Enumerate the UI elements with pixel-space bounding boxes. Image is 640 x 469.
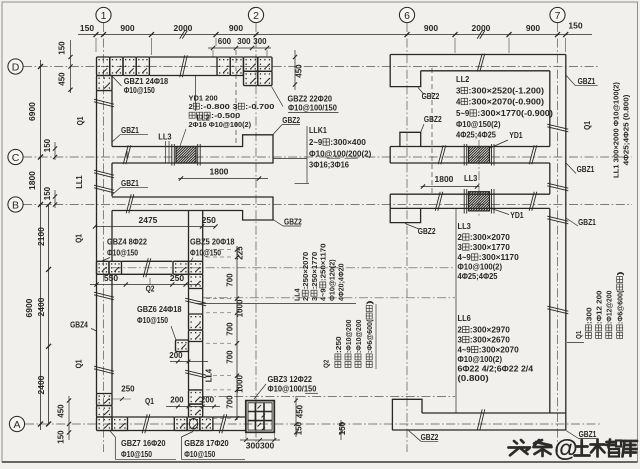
svg-text:2: 2 <box>189 102 193 111</box>
svg-text:2400: 2400 <box>36 297 46 316</box>
svg-text:1800: 1800 <box>27 171 37 190</box>
axis line Q2 wall <box>112 267 455 269</box>
svg-text:GBZ3 12Φ22: GBZ3 12Φ22 <box>268 375 313 384</box>
svg-text:LL6: LL6 <box>458 314 472 323</box>
svg-text:(0.800): (0.800) <box>458 374 489 383</box>
svg-text:Q1: Q1 <box>75 359 84 368</box>
svg-text:Φ10@150: Φ10@150 <box>190 249 222 258</box>
svg-text::Φ10@200: :Φ10@200 <box>354 320 363 353</box>
svg-text:150: 150 <box>58 41 67 55</box>
centerline mid strip <box>203 297 455 299</box>
dim 450/150 right of GBZ3 <box>295 396 297 437</box>
svg-text:2000: 2000 <box>174 23 193 33</box>
svg-text:2~9: 2~9 <box>309 138 323 147</box>
svg-text:GBZ1: GBZ1 <box>579 430 597 439</box>
svg-text:200: 200 <box>170 396 184 405</box>
svg-text:4~9: 4~9 <box>458 346 472 355</box>
svg-text:2000: 2000 <box>472 23 491 33</box>
svg-text:LL2: LL2 <box>456 75 470 84</box>
svg-text:3: 3 <box>310 297 319 301</box>
axis line 6 <box>406 23 408 452</box>
left dim chain inner B-A <box>48 205 50 425</box>
Q2 note block rotated <box>322 360 331 368</box>
svg-text:Φ10@150: Φ10@150 <box>137 316 169 325</box>
svg-text::300×2070: :300×2070 <box>470 233 511 242</box>
svg-text::Φ12@200: :Φ12@200 <box>605 291 614 324</box>
svg-text:GBZ8 17Φ20: GBZ8 17Φ20 <box>184 439 229 448</box>
svg-text:GBZ1: GBZ1 <box>578 218 596 227</box>
svg-text:2: 2 <box>458 326 463 335</box>
svg-text::-0.700: :-0.700 <box>245 102 274 111</box>
axis bubble C <box>8 149 23 164</box>
top dimension chain <box>78 34 592 36</box>
svg-text:GBZ5 20Φ18: GBZ5 20Φ18 <box>190 238 235 247</box>
svg-text:YD1: YD1 <box>510 211 524 220</box>
svg-text:Φ10@150: Φ10@150 <box>121 450 153 459</box>
svg-text::300×2070(-0.900): :300×2070(-0.900) <box>468 98 544 107</box>
LL4 note block rotated <box>292 288 301 301</box>
YD1 hatch B right <box>469 192 490 211</box>
svg-text::-0.800 3: :-0.800 3 <box>200 102 238 111</box>
wall D left: GBZ2 column <box>217 57 230 76</box>
svg-text::300×2520(-1.200): :300×2520(-1.200) <box>468 87 544 96</box>
svg-text:LLK1: LLK1 <box>309 126 327 135</box>
left dim chain outer <box>40 60 42 430</box>
label Q1 left top <box>76 116 85 125</box>
svg-text::Φ6@600(: :Φ6@600( <box>616 290 625 324</box>
svg-text:Φ10@100/150: Φ10@100/150 <box>288 104 337 113</box>
svg-text:700: 700 <box>226 322 235 336</box>
svg-text:4~9: 4~9 <box>319 289 328 302</box>
center strip Q2 vertical <box>188 211 190 262</box>
axis bubble B <box>8 197 23 212</box>
svg-text::300×2670: :300×2670 <box>470 336 511 345</box>
GBZ4 cells <box>97 261 110 274</box>
left wall break marks <box>94 99 114 104</box>
wall D right left pier <box>390 55 421 87</box>
A wall right bldg <box>422 412 566 414</box>
svg-text:Φ10@150: Φ10@150 <box>124 86 156 95</box>
GBZ6 cells <box>189 314 203 330</box>
svg-text:LL2: LL2 <box>197 114 211 123</box>
svg-text:Q1: Q1 <box>574 331 583 339</box>
svg-text:Φ10@150(2): Φ10@150(2) <box>456 120 501 129</box>
axis bubble 1 <box>96 7 111 22</box>
svg-text:900: 900 <box>229 23 243 33</box>
wall C left outline <box>112 135 273 163</box>
Q2 wall left <box>122 260 173 262</box>
svg-text:LL3: LL3 <box>158 133 172 142</box>
svg-text:450: 450 <box>295 64 304 78</box>
label Q1 right top <box>583 121 592 130</box>
label LL2 left <box>195 76 197 111</box>
wall B left outline <box>112 197 273 220</box>
svg-text:150: 150 <box>43 186 52 200</box>
wall B right band <box>390 193 550 195</box>
right wall inner segments <box>549 71 551 147</box>
B wall break <box>126 194 131 213</box>
svg-text:150: 150 <box>80 23 94 33</box>
svg-text::Φ10@200: :Φ10@200 <box>344 320 353 353</box>
svg-text:2: 2 <box>253 10 259 22</box>
A wall left bldg <box>128 416 175 418</box>
dim 200 200 at strip bottom <box>166 406 220 408</box>
svg-text:225: 225 <box>236 246 245 260</box>
svg-text:Q1: Q1 <box>583 121 592 130</box>
svg-text:C: C <box>12 152 20 164</box>
svg-text:900: 900 <box>526 23 540 33</box>
svg-text:LL3: LL3 <box>464 174 478 183</box>
svg-text:GBZ2: GBZ2 <box>422 92 440 101</box>
svg-text:Φ10@100/200(2): Φ10@100/200(2) <box>309 150 372 159</box>
svg-text::300×1770(-0.900): :300×1770(-0.900) <box>477 109 553 118</box>
svg-text:GBZ2: GBZ2 <box>284 218 302 227</box>
svg-text:LL4: LL4 <box>292 288 301 301</box>
svg-text:GBZ4: GBZ4 <box>70 321 88 330</box>
svg-text:2475: 2475 <box>139 215 158 225</box>
top sub-dimension 600 300 300 <box>208 47 271 49</box>
hidden line sub-dim <box>235 50 237 145</box>
svg-text:6900: 6900 <box>24 298 34 317</box>
top dim break marks <box>180 31 185 39</box>
left small 150 dims <box>54 142 56 160</box>
svg-text:4~9: 4~9 <box>458 253 472 262</box>
watermark 头条@土木智库 <box>509 440 552 456</box>
svg-text:Q1: Q1 <box>145 397 154 406</box>
wall D right band <box>390 54 566 56</box>
axis bubble 6 <box>399 7 414 22</box>
svg-text:200: 200 <box>169 351 183 360</box>
svg-text:150: 150 <box>57 430 66 444</box>
axis line A <box>25 423 600 425</box>
dim 450 right of GBZ2 <box>294 50 296 90</box>
extension lines top <box>95 38 97 52</box>
svg-text:GBZ2: GBZ2 <box>421 433 439 442</box>
svg-text:4Φ25;4Φ25: 4Φ25;4Φ25 <box>456 131 497 140</box>
axis line D <box>23 66 598 68</box>
LL1 vertical note <box>612 82 621 178</box>
label LL4 rotated <box>205 368 214 382</box>
svg-text:B: B <box>12 199 19 211</box>
hidden line right bldg <box>431 68 433 194</box>
axis bubble D <box>8 59 23 74</box>
bottom frame line <box>2 461 638 463</box>
svg-text:Φ10@100(2): Φ10@100(2) <box>458 355 503 364</box>
strip lower cells <box>189 390 203 404</box>
svg-text:Φ10@150: Φ10@150 <box>184 450 216 459</box>
svg-text:700: 700 <box>226 350 235 364</box>
label Q1 left low <box>75 359 84 368</box>
left bottom 450/150 dim <box>68 396 70 440</box>
dim 550 / 250 <box>90 284 200 286</box>
svg-text:1: 1 <box>101 10 107 22</box>
svg-text:Q2: Q2 <box>146 285 155 294</box>
C right step <box>400 132 421 146</box>
svg-text:5~9: 5~9 <box>456 109 470 118</box>
YD1 hatch C right <box>469 147 490 164</box>
left top 150/450 dim <box>70 40 72 93</box>
svg-text:450: 450 <box>58 72 67 86</box>
svg-text:LL1: LL1 <box>75 175 84 189</box>
svg-text:D: D <box>12 61 20 73</box>
YD1 hatch at C left <box>176 147 196 164</box>
svg-text:150: 150 <box>568 21 582 31</box>
svg-text::-0.500: :-0.500 <box>211 111 240 120</box>
svg-text:LL4: LL4 <box>205 368 214 382</box>
svg-text::250: :250 <box>334 336 343 353</box>
svg-text:2400: 2400 <box>36 375 46 394</box>
svg-text:300: 300 <box>237 37 251 46</box>
axis line B <box>23 204 632 206</box>
svg-text:Φ10@100(2): Φ10@100(2) <box>458 263 503 272</box>
svg-text::250×1170: :250×1170 <box>319 244 328 282</box>
svg-text:600: 600 <box>218 37 232 46</box>
dim 1800 at C left <box>178 178 268 180</box>
svg-text:300: 300 <box>253 37 267 46</box>
right wall break marks <box>547 124 568 129</box>
svg-text:Q2: Q2 <box>322 360 331 368</box>
svg-text:GBZ1: GBZ1 <box>121 179 139 188</box>
svg-text:250: 250 <box>170 273 184 283</box>
svg-text:@: @ <box>554 436 578 463</box>
svg-text:YD1: YD1 <box>509 131 523 140</box>
svg-text:LL1 300×2000 Φ10@100(2): LL1 300×2000 Φ10@100(2) <box>612 82 621 178</box>
svg-text:GBZ2 22Φ20: GBZ2 22Φ20 <box>288 95 333 104</box>
svg-text::Φ12 200: :Φ12 200 <box>595 291 604 324</box>
svg-text:3: 3 <box>458 336 463 345</box>
dim 2475 / 250 below B <box>95 226 216 228</box>
svg-text:2: 2 <box>458 233 463 242</box>
svg-text:GBZ2: GBZ2 <box>424 115 442 124</box>
svg-text:GBZ1: GBZ1 <box>578 77 596 86</box>
svg-text:Q1: Q1 <box>75 234 84 243</box>
B right step <box>390 208 420 222</box>
dim 300300 under GBZ3 <box>240 439 280 441</box>
strip break marks <box>185 298 206 303</box>
svg-text:6: 6 <box>404 10 410 22</box>
dim 150 x341 <box>340 420 342 440</box>
svg-text:1000: 1000 <box>236 299 245 317</box>
svg-text:GBZ7 16Φ20: GBZ7 16Φ20 <box>121 439 166 448</box>
svg-text::300×1170: :300×1170 <box>479 253 520 262</box>
svg-text:150: 150 <box>43 138 52 152</box>
svg-text::300×1770: :300×1770 <box>470 243 511 252</box>
svg-text::300×2970: :300×2970 <box>470 326 511 335</box>
svg-text:Φ10@120(2): Φ10@120(2) <box>328 259 337 301</box>
svg-text:250: 250 <box>202 215 216 225</box>
svg-text::300: :300 <box>584 307 593 324</box>
axis line 1 <box>103 23 105 452</box>
svg-text:GBZ2: GBZ2 <box>418 227 436 236</box>
svg-text:6900: 6900 <box>27 102 37 121</box>
svg-text:700: 700 <box>226 395 235 409</box>
svg-text:4Φ20;4Φ20: 4Φ20;4Φ20 <box>336 264 345 302</box>
Q1 note block rotated right <box>574 331 583 339</box>
svg-text:Φ10@100/150: Φ10@100/150 <box>268 385 317 394</box>
svg-text:Φ10@150: Φ10@150 <box>107 249 139 258</box>
svg-text:2: 2 <box>301 297 310 301</box>
centerline lower strip <box>203 396 455 398</box>
axis bubble 7 <box>550 7 565 22</box>
svg-text:Q1: Q1 <box>76 116 85 125</box>
svg-text:3: 3 <box>458 243 463 252</box>
svg-text:GBZ6 24Φ18: GBZ6 24Φ18 <box>137 305 182 314</box>
svg-text::300×400: :300×400 <box>330 138 366 147</box>
svg-text:200: 200 <box>201 396 215 405</box>
svg-text:GBZ1: GBZ1 <box>121 126 139 135</box>
axis bubble 2 <box>248 7 263 22</box>
svg-text:6Φ22 4/2;6Φ22 2/4: 6Φ22 4/2;6Φ22 2/4 <box>458 365 534 374</box>
svg-text:150: 150 <box>338 421 347 435</box>
svg-text:2100: 2100 <box>36 227 46 246</box>
svg-text:4Φ25;4Φ25 (0.800): 4Φ25;4Φ25 (0.800) <box>622 94 631 165</box>
dim 200 mid strip <box>170 361 208 363</box>
svg-text:900: 900 <box>120 23 134 33</box>
svg-text:250: 250 <box>121 385 135 394</box>
right wall outer <box>565 55 567 431</box>
label Q1 left mid <box>75 234 84 243</box>
GBZ7 cells <box>97 394 113 406</box>
axis line 2 <box>255 23 257 443</box>
LL3 leader vertical <box>455 208 457 413</box>
svg-text:LL3: LL3 <box>458 222 472 231</box>
svg-text:1800: 1800 <box>210 167 229 177</box>
left wall Q1 (axis 1) <box>96 91 98 394</box>
svg-text:3: 3 <box>456 87 461 96</box>
svg-text::250×2070: :250×2070 <box>301 252 310 290</box>
svg-text:700: 700 <box>226 273 235 287</box>
YD1 centerline right <box>478 140 480 218</box>
wall C right band <box>390 146 550 148</box>
label LL1 left <box>75 175 84 189</box>
svg-text:3Φ16;3Φ16: 3Φ16;3Φ16 <box>309 161 350 170</box>
GBZ5 cells <box>173 261 189 274</box>
svg-text:150: 150 <box>295 421 304 435</box>
svg-text:1000: 1000 <box>236 375 245 393</box>
axis line C <box>23 156 632 158</box>
svg-text:GBZ2: GBZ2 <box>282 116 300 125</box>
wall D left: beam LL2 segment <box>150 56 218 58</box>
center dim chain <box>236 246 238 420</box>
svg-text:4: 4 <box>456 98 461 107</box>
GBZ8 cells <box>174 417 187 431</box>
svg-text:300300: 300300 <box>246 441 275 451</box>
axis bubble A <box>9 416 24 431</box>
svg-text:7: 7 <box>555 10 561 22</box>
svg-text:900: 900 <box>424 23 438 33</box>
GBZ3 column <box>246 401 274 433</box>
svg-text:GBZ4 8Φ22: GBZ4 8Φ22 <box>107 238 147 247</box>
svg-text::300×2070: :300×2070 <box>479 346 520 355</box>
svg-text:450: 450 <box>57 404 66 418</box>
svg-text:GBZ1: GBZ1 <box>577 165 595 174</box>
C wall break <box>126 151 128 156</box>
svg-text:450: 450 <box>296 404 305 418</box>
svg-text:A: A <box>13 419 20 431</box>
svg-text:GBZ1 24Φ18: GBZ1 24Φ18 <box>124 77 169 86</box>
svg-text:1800: 1800 <box>435 174 454 184</box>
svg-text::250×1770: :250×1770 <box>310 252 319 290</box>
svg-text::Φ6@600(: :Φ6@600( <box>365 319 374 353</box>
svg-text:4Φ25;4Φ25: 4Φ25;4Φ25 <box>458 272 499 281</box>
axis line 7 <box>557 23 559 452</box>
svg-text:550: 550 <box>104 273 118 283</box>
wall D left: GBZ1 corner column cells <box>97 57 110 76</box>
